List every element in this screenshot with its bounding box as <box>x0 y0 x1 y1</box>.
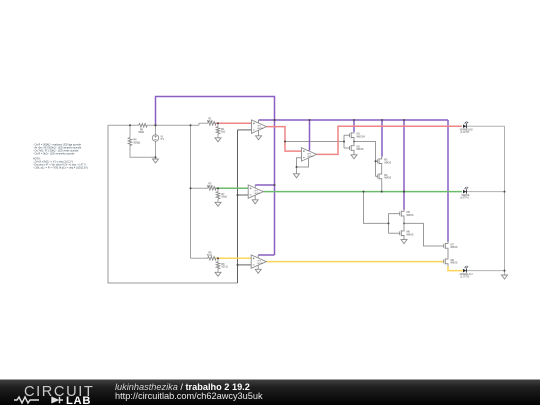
svg-text:- (10k, p1) ⇒ R ⇒ 70/E (4,p1): - (10k, p1) ⇒ R ⇒ 70/E (4,p1) ⇒ obq 4 LE… <box>33 167 88 170</box>
svg-text:VERDE: VERDE <box>461 195 469 197</box>
svg-text:(1.977V): (1.977V) <box>460 132 469 134</box>
voltage source V1 <box>152 135 158 141</box>
svg-text:LAB: LAB <box>66 395 91 405</box>
svg-text:NMOS: NMOS <box>384 178 391 180</box>
wire op-amp1 output gray tap to inverter M1 gates <box>285 141 344 143</box>
wire R2 shunt branch <box>217 123 219 138</box>
svg-text:5 V: 5 V <box>161 139 165 141</box>
wire branch to R5 <box>191 257 208 259</box>
svg-text:AMARELO 2: AMARELO 2 <box>459 273 473 276</box>
ground right bus <box>502 275 508 279</box>
op-amp U4 <box>251 255 266 273</box>
footer bar <box>0 380 540 405</box>
resistor R1 (series op-amp1) <box>208 122 216 126</box>
svg-text:1kΩ: 1kΩ <box>221 132 225 134</box>
wire big feedback box left and bottom <box>108 125 238 283</box>
svg-text:500 Ω: 500 Ω <box>222 267 229 269</box>
svg-text:NMOS: NMOS <box>451 247 458 249</box>
wire Ry shunt branch <box>217 258 219 272</box>
wire branch to R3 <box>191 187 208 189</box>
svg-text:http://circuitlab.com/ch62awcy: http://circuitlab.com/ch62awcy3u5uk <box>115 391 263 401</box>
footer logo resistor-diode icon <box>14 397 63 403</box>
transistor M8 (pair4 bottom) <box>444 257 448 266</box>
wire purple branch to op-amp4 Vplus <box>258 254 274 256</box>
wire purple drop to pair4 <box>447 120 449 242</box>
svg-text:NMOS: NMOS <box>357 149 364 151</box>
ground under inverter1 <box>351 155 357 159</box>
svg-text:LM741: LM741 <box>257 263 264 265</box>
svg-text:50kΩ: 50kΩ <box>222 197 228 199</box>
svg-text:50kΩ: 50kΩ <box>207 121 213 123</box>
resistor R6 (series, input) <box>139 124 147 128</box>
transistor M3 (pair2 top) <box>377 157 381 172</box>
svg-text:LM741: LM741 <box>257 128 264 130</box>
resistor Ry (shunt op-amp4) <box>216 262 220 270</box>
wire R4 top branch <box>129 125 131 137</box>
wire pair3 output to pair4 gate <box>404 223 444 246</box>
wire red op-amp1 output to op-amp2 plus <box>267 127 302 152</box>
wire op-amp4 inverting input <box>238 264 252 266</box>
transistor M1 (inverter1 top) <box>350 132 354 142</box>
transistor M5 (pair3 top) <box>400 210 404 224</box>
svg-text:500kΩ: 500kΩ <box>134 142 141 144</box>
wire main input horizontal net <box>108 123 208 125</box>
transistor M7 (pair4 top) <box>444 242 448 258</box>
svg-text:50 Ω: 50 Ω <box>207 255 212 257</box>
wire red op-amp1 plus input <box>215 122 252 124</box>
svg-text:50kΩ: 50kΩ <box>207 186 213 188</box>
resistor R3 (series op-amp3) <box>208 187 216 191</box>
svg-text:LM741: LM741 <box>307 156 314 158</box>
resistor R2 (shunt op-amp1) <box>216 127 220 134</box>
wire inverter1 output to pair2 gates <box>354 142 376 177</box>
wire yellow op-amp4 plus input <box>215 257 251 259</box>
wire pair2 gate rail stubs <box>376 161 378 176</box>
svg-text:VERMELHO: VERMELHO <box>460 129 473 131</box>
wire inverting bus vertical <box>237 130 239 283</box>
svg-text:NMOS: NMOS <box>384 162 391 164</box>
component labels <box>134 118 474 278</box>
transistor M2 (inverter1 bottom) <box>350 142 354 155</box>
svg-text:LM741: LM741 <box>254 193 261 195</box>
wire V1 bottom to ground <box>155 141 157 159</box>
svg-text:50kΩ: 50kΩ <box>139 132 145 134</box>
transistor M4 (pair2 bottom) <box>377 171 381 182</box>
wire LED3 cathode to right bus <box>467 270 505 272</box>
ground under V1 <box>153 159 159 163</box>
ground under pair3 <box>401 240 407 244</box>
resistor R5 (series op-amp4) <box>208 257 216 261</box>
wire LED2 cathode to right bus <box>467 191 505 193</box>
wire pair3 gate rail <box>389 214 400 234</box>
op-amp U1 <box>252 120 267 140</box>
wire green op-amp3 output rail to LED2 <box>263 191 462 193</box>
svg-text:NMOS: NMOS <box>451 263 458 265</box>
ground under R2 <box>215 138 221 142</box>
wire purple drop to pair2 <box>381 120 383 157</box>
wire pair2 bottom emitter to green <box>381 182 383 192</box>
op-amp U2 <box>294 148 317 178</box>
svg-text:NMOS: NMOS <box>407 215 414 217</box>
wire purple supply rail <box>259 119 449 121</box>
COMPONENTS <box>128 122 220 270</box>
wire V1 plus rail purple top <box>156 97 275 256</box>
transistor M6 (pair3 bottom) <box>400 223 404 239</box>
op-amp U3 <box>248 185 263 204</box>
wire purple drop to pair3 <box>403 120 405 210</box>
wire op-amp2 feedback and Vminus tie <box>297 158 309 167</box>
ground under Rg <box>215 202 221 206</box>
wire op-amp2 ground stub <box>296 167 298 174</box>
LED D1 (vermelho) <box>463 121 468 128</box>
wire purple branch to op-amp3 Vplus <box>255 184 274 186</box>
LED D3 (amarelo) <box>463 266 468 273</box>
wire LED1 cathode to right bus <box>467 126 505 275</box>
wire input distribution vertical <box>190 125 192 258</box>
notes text block <box>33 143 88 169</box>
svg-text:NMOS4: NMOS4 <box>357 136 366 138</box>
wire pair3 input tap from green <box>364 192 389 224</box>
wire yellow op-amp4 output to pair4 bottom gate <box>266 261 444 263</box>
wire op-amp3 inverting input <box>238 194 249 196</box>
wire purple drop to op-amp2 Vplus <box>309 120 311 151</box>
resistor Rg (shunt op-amp3) <box>216 192 220 199</box>
svg-text:NMOS: NMOS <box>407 234 414 236</box>
wire R4 bottom return <box>130 145 156 157</box>
svg-text:(1.977V): (1.977V) <box>460 198 469 200</box>
wire V1 top stub <box>155 125 157 135</box>
wire purple drop to inverter1 <box>353 120 355 132</box>
LED D2 (verde) <box>463 187 468 194</box>
wire Rg shunt branch <box>217 188 219 202</box>
svg-text:- Os R = 5kΩ - LED vermelho ac: - Os R = 5kΩ - LED vermelho acende <box>33 152 75 155</box>
wire yellow pair4 emitter to LED3 <box>448 266 463 270</box>
wire red op-amp2 output rail to LED1 <box>317 126 462 154</box>
svg-text:(1.977V): (1.977V) <box>460 277 469 279</box>
wire green op-amp3 plus input <box>215 187 248 189</box>
resistor R4 (shunt at source) <box>128 137 132 145</box>
wire op-amp1 inverting input <box>238 129 252 131</box>
wire inverter1 gate rail <box>344 135 350 148</box>
ground under Ry <box>215 272 221 276</box>
